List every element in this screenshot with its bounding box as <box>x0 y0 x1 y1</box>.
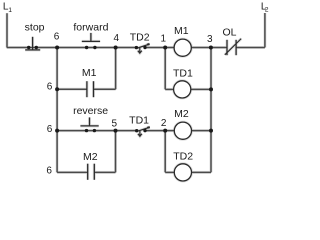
wire rung1 right <box>191 47 227 49</box>
svg-text:TD1: TD1 <box>129 115 149 127</box>
wire node2 vertical <box>164 131 166 173</box>
svg-text:reverse: reverse <box>73 105 108 117</box>
svg-text:TD2: TD2 <box>173 151 193 163</box>
wire node4 vertical <box>115 48 117 90</box>
wire rung1 mid <box>145 47 174 49</box>
wire TD2coil vertical <box>210 131 212 173</box>
pushbutton stop (NC) <box>25 37 40 50</box>
wire branchB right <box>191 88 211 90</box>
svg-text:1: 1 <box>161 34 167 45</box>
wire rung2 mid <box>145 130 174 132</box>
svg-text:6: 6 <box>47 82 53 93</box>
wire rung2 left <box>57 130 137 132</box>
wire rung1 left <box>7 47 137 49</box>
coil M2 <box>174 122 191 139</box>
svg-text:M1: M1 <box>82 67 97 79</box>
wire branchC right <box>94 171 115 173</box>
wire branchA right <box>94 88 116 90</box>
node 4 <box>114 46 118 50</box>
wire branchD right <box>191 171 211 173</box>
svg-text:2: 2 <box>161 118 167 129</box>
svg-text:TD1: TD1 <box>173 68 193 80</box>
svg-text:2: 2 <box>265 7 269 14</box>
coil TD2 <box>174 164 191 181</box>
node 6 branchA <box>55 87 59 91</box>
svg-text:6: 6 <box>46 165 52 176</box>
wire branchB left <box>165 88 173 90</box>
svg-text:stop: stop <box>25 21 45 33</box>
wire branchD left <box>165 171 174 173</box>
svg-text:6: 6 <box>47 124 53 135</box>
svg-text:6: 6 <box>54 32 60 43</box>
wire branchA left <box>57 88 87 90</box>
svg-text:OL: OL <box>222 26 236 38</box>
wire node1 vertical <box>164 48 166 90</box>
svg-text:1: 1 <box>8 7 12 14</box>
wire rung1 to L2 <box>236 47 265 49</box>
svg-text:M1: M1 <box>174 25 189 37</box>
node 5 <box>114 129 118 133</box>
svg-text:3: 3 <box>207 34 213 45</box>
node 3 <box>209 46 213 50</box>
wire rung2 right <box>192 130 211 132</box>
node rung2 right join <box>209 129 213 133</box>
node branchB join <box>209 87 213 91</box>
node 6 rung2 <box>55 129 59 133</box>
contact M2 seal (NO) <box>88 164 95 180</box>
wire branchC left <box>57 171 88 173</box>
node 6 rung1 <box>55 46 59 50</box>
pushbutton reverse (NO) <box>80 117 98 126</box>
svg-text:M2: M2 <box>174 108 189 120</box>
coil TD1 <box>174 81 191 98</box>
node 1 <box>163 46 167 50</box>
svg-text:TD2: TD2 <box>130 31 150 43</box>
rail L2 <box>264 13 266 48</box>
overload OL (NC) <box>225 39 241 56</box>
contact TD1 (NO timed-closed) <box>138 127 150 136</box>
svg-text:5: 5 <box>112 118 118 129</box>
label L1 <box>3 1 12 14</box>
rail L1 <box>6 13 8 47</box>
wire node3 vertical <box>210 48 212 131</box>
coil M1 <box>174 39 191 56</box>
svg-text:forward: forward <box>73 22 108 34</box>
svg-text:4: 4 <box>114 33 120 44</box>
svg-text:M2: M2 <box>83 151 98 163</box>
wire node5 vertical <box>115 131 117 173</box>
contact TD2 (NO timed-closed) <box>138 44 150 53</box>
wire node6 vertical <box>56 48 58 173</box>
pushbutton forward (NO) <box>82 33 100 42</box>
contact M1 seal (NO) <box>87 81 94 97</box>
node 2 <box>163 129 167 133</box>
label L2 <box>261 1 269 13</box>
